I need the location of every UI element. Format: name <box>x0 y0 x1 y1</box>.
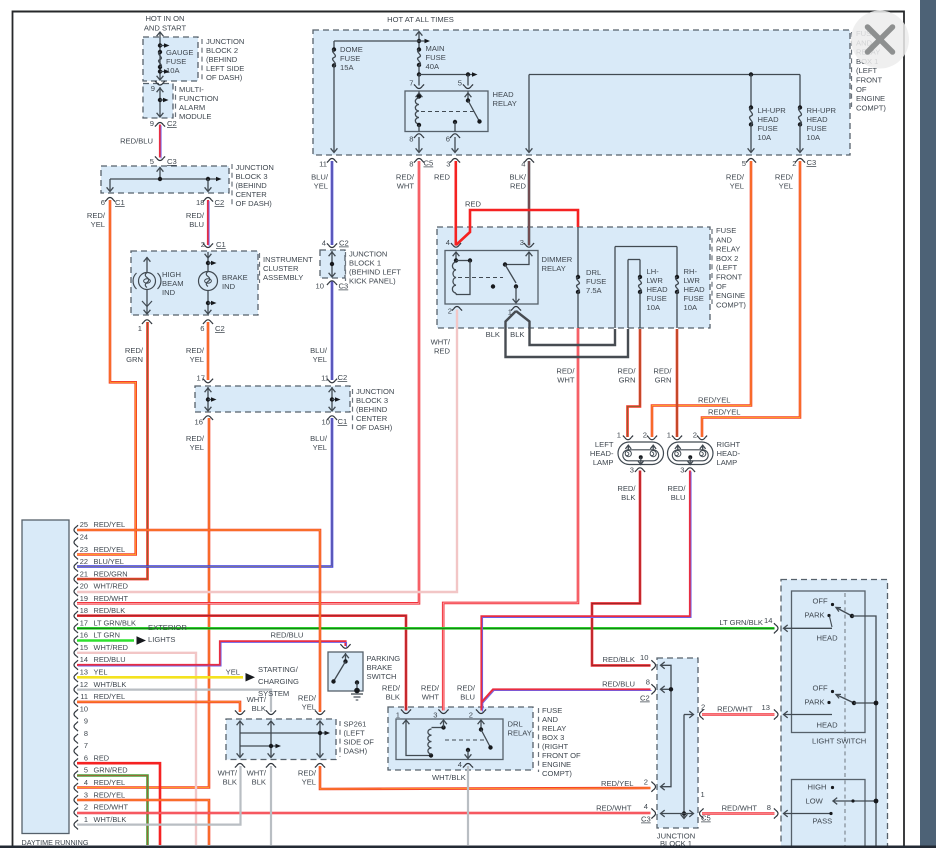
svg-text:1: 1 <box>508 308 512 317</box>
svg-text:KICK PANEL): KICK PANEL) <box>349 277 396 286</box>
svg-text:FUSE: FUSE <box>758 124 778 133</box>
svg-text:HEAD: HEAD <box>647 285 669 294</box>
svg-text:RED/: RED/ <box>298 769 317 778</box>
svg-text:RED: RED <box>510 182 527 191</box>
svg-text:RED/: RED/ <box>653 367 672 376</box>
svg-text:5: 5 <box>742 159 746 168</box>
svg-text:FUSE: FUSE <box>647 294 667 303</box>
svg-text:10: 10 <box>640 653 648 662</box>
svg-text:CENTER: CENTER <box>356 414 388 423</box>
svg-text:1: 1 <box>396 711 400 720</box>
svg-text:6: 6 <box>446 135 450 144</box>
svg-text:LOW: LOW <box>806 797 824 806</box>
svg-text:C2: C2 <box>167 119 177 128</box>
svg-text:WHT/RED: WHT/RED <box>94 582 129 591</box>
svg-text:9: 9 <box>151 84 155 93</box>
svg-text:RED/YEL: RED/YEL <box>94 790 126 799</box>
svg-text:RED/: RED/ <box>298 694 317 703</box>
svg-text:C1: C1 <box>216 240 226 249</box>
svg-text:(BEHIND LEFT: (BEHIND LEFT <box>349 268 401 277</box>
svg-text:YEL: YEL <box>190 355 204 364</box>
svg-text:YEL: YEL <box>94 668 108 677</box>
svg-text:FUSE: FUSE <box>340 54 360 63</box>
svg-text:RED/: RED/ <box>186 346 205 355</box>
svg-text:19: 19 <box>80 594 88 603</box>
svg-text:FUNCTION: FUNCTION <box>179 94 218 103</box>
svg-text:BLOCK 2: BLOCK 2 <box>206 46 238 55</box>
svg-text:2: 2 <box>448 307 452 316</box>
svg-text:IND: IND <box>222 282 236 291</box>
svg-text:INSTRUMENT: INSTRUMENT <box>263 255 313 264</box>
svg-text:C2: C2 <box>215 324 225 333</box>
svg-text:BLOCK 3: BLOCK 3 <box>236 172 268 181</box>
svg-text:5: 5 <box>84 766 88 775</box>
svg-text:LH-UPR: LH-UPR <box>758 106 787 115</box>
svg-text:HEAD: HEAD <box>493 90 515 99</box>
svg-text:COMPT): COMPT) <box>542 769 572 778</box>
svg-text:LAMP: LAMP <box>717 458 738 467</box>
svg-text:RELAY: RELAY <box>542 264 566 273</box>
svg-text:2: 2 <box>701 703 705 712</box>
svg-text:2: 2 <box>469 711 473 720</box>
svg-text:EXTERIOR: EXTERIOR <box>148 623 187 632</box>
svg-text:LT GRN: LT GRN <box>94 631 120 640</box>
svg-text:HOT IN ON: HOT IN ON <box>145 14 184 23</box>
svg-text:OF DASH): OF DASH) <box>206 73 243 82</box>
svg-text:6: 6 <box>101 198 105 207</box>
svg-text:ALARM: ALARM <box>179 103 205 112</box>
svg-text:ENGINE: ENGINE <box>542 760 571 769</box>
svg-text:12: 12 <box>80 680 88 689</box>
svg-text:BLU/: BLU/ <box>310 346 328 355</box>
svg-text:RED/BLU: RED/BLU <box>120 137 153 146</box>
svg-text:RED/BLU: RED/BLU <box>271 631 304 640</box>
svg-text:RH-UPR: RH-UPR <box>807 106 837 115</box>
svg-text:8: 8 <box>767 803 771 812</box>
svg-text:RED/WHT: RED/WHT <box>717 705 753 714</box>
svg-text:7: 7 <box>84 741 88 750</box>
svg-text:YEL: YEL <box>190 443 204 452</box>
svg-text:PARK: PARK <box>805 698 825 707</box>
svg-text:WHT/BLK: WHT/BLK <box>94 815 127 824</box>
svg-text:GRN: GRN <box>655 376 672 385</box>
svg-text:C2: C2 <box>640 694 650 703</box>
svg-text:3: 3 <box>520 238 524 247</box>
svg-text:RED/YEL: RED/YEL <box>94 545 126 554</box>
svg-text:LEFT SIDE: LEFT SIDE <box>206 64 244 73</box>
svg-text:16: 16 <box>80 631 88 640</box>
svg-text:10A: 10A <box>807 133 821 142</box>
svg-text:8: 8 <box>409 160 413 169</box>
svg-text:YEL: YEL <box>314 182 328 191</box>
svg-text:FUSE: FUSE <box>542 706 562 715</box>
svg-text:25: 25 <box>80 520 88 529</box>
svg-text:14: 14 <box>80 655 88 664</box>
svg-text:C2: C2 <box>339 239 349 248</box>
svg-text:10A: 10A <box>166 66 180 75</box>
svg-text:YEL: YEL <box>91 220 105 229</box>
svg-text:FUSE: FUSE <box>426 53 446 62</box>
svg-text:AND: AND <box>542 715 559 724</box>
svg-text:YEL: YEL <box>302 778 316 787</box>
svg-text:LH-: LH- <box>647 267 660 276</box>
svg-text:RED/: RED/ <box>617 484 636 493</box>
svg-text:JUNCTION: JUNCTION <box>356 387 394 396</box>
svg-text:OFF: OFF <box>813 597 829 606</box>
svg-text:HEAD: HEAD <box>817 634 839 643</box>
svg-text:HEAD: HEAD <box>807 115 829 124</box>
svg-text:10: 10 <box>316 282 324 291</box>
svg-text:4: 4 <box>446 238 450 247</box>
svg-text:DRL: DRL <box>586 268 601 277</box>
svg-text:LWR: LWR <box>647 276 664 285</box>
svg-text:WHT/: WHT/ <box>247 695 267 704</box>
svg-text:C5: C5 <box>701 814 711 823</box>
svg-text:SWITCH: SWITCH <box>367 672 397 681</box>
svg-text:HOT AT ALL TIMES: HOT AT ALL TIMES <box>387 15 454 24</box>
svg-text:RED/: RED/ <box>556 367 575 376</box>
svg-text:1: 1 <box>617 431 621 440</box>
svg-text:8: 8 <box>84 729 88 738</box>
svg-text:10: 10 <box>80 704 88 713</box>
svg-text:AND START: AND START <box>144 24 187 33</box>
svg-text:RED/YEL: RED/YEL <box>94 520 126 529</box>
svg-text:WHT: WHT <box>557 376 575 385</box>
svg-text:RED/: RED/ <box>457 684 476 693</box>
svg-text:20: 20 <box>80 582 88 591</box>
svg-text:MULTI-: MULTI- <box>179 85 204 94</box>
svg-text:RELAY: RELAY <box>716 245 740 254</box>
svg-text:GAUGE: GAUGE <box>166 48 193 57</box>
svg-text:RED/WHT: RED/WHT <box>94 594 129 603</box>
svg-text:HIGH: HIGH <box>808 783 827 792</box>
svg-text:GRN: GRN <box>619 376 636 385</box>
svg-text:3: 3 <box>446 160 450 169</box>
svg-text:JUNCTION: JUNCTION <box>206 37 244 46</box>
svg-text:3: 3 <box>433 711 437 720</box>
svg-text:14: 14 <box>764 616 772 625</box>
svg-text:4: 4 <box>84 778 88 787</box>
svg-text:9: 9 <box>84 717 88 726</box>
svg-text:BLU/YEL: BLU/YEL <box>94 557 124 566</box>
svg-text:HEAD: HEAD <box>817 721 839 730</box>
svg-text:FUSE: FUSE <box>586 277 606 286</box>
svg-text:C5: C5 <box>424 159 434 168</box>
svg-text:(LEFT: (LEFT <box>344 729 365 738</box>
svg-text:RED/: RED/ <box>186 211 205 220</box>
svg-text:11: 11 <box>80 692 88 701</box>
svg-text:MAIN: MAIN <box>426 44 445 53</box>
svg-text:FRONT OF: FRONT OF <box>542 751 581 760</box>
svg-text:C3: C3 <box>807 158 817 167</box>
svg-text:RED/BLK: RED/BLK <box>603 655 636 664</box>
svg-text:(BEHIND: (BEHIND <box>236 181 268 190</box>
svg-text:BLU/: BLU/ <box>311 173 329 182</box>
svg-text:DIMMER: DIMMER <box>542 255 573 264</box>
svg-text:WHT: WHT <box>422 693 440 702</box>
svg-text:10A: 10A <box>758 133 772 142</box>
svg-text:FRONT: FRONT <box>716 273 743 282</box>
svg-text:OF DASH): OF DASH) <box>356 423 393 432</box>
svg-text:10A: 10A <box>684 303 698 312</box>
svg-text:15A: 15A <box>340 63 354 72</box>
svg-text:WHT/: WHT/ <box>431 338 451 347</box>
svg-text:HEAD-: HEAD- <box>590 449 614 458</box>
svg-text:C2: C2 <box>338 373 348 382</box>
svg-text:OF: OF <box>716 282 727 291</box>
svg-text:RED/: RED/ <box>186 434 205 443</box>
svg-text:BLK: BLK <box>621 493 635 502</box>
svg-text:DOME: DOME <box>340 45 363 54</box>
svg-text:11: 11 <box>319 160 327 169</box>
svg-text:SIDE OF: SIDE OF <box>344 738 375 747</box>
svg-text:FUSE: FUSE <box>684 294 704 303</box>
svg-text:RED: RED <box>434 173 451 182</box>
svg-text:C1: C1 <box>115 198 125 207</box>
svg-text:3: 3 <box>630 466 634 475</box>
svg-text:C1: C1 <box>338 417 348 426</box>
svg-text:BLU: BLU <box>189 220 204 229</box>
svg-text:BLU/: BLU/ <box>310 434 328 443</box>
svg-text:HEAD-: HEAD- <box>717 449 741 458</box>
svg-text:(BEHIND: (BEHIND <box>206 55 238 64</box>
svg-text:BLK: BLK <box>510 330 524 339</box>
svg-text:23: 23 <box>80 545 88 554</box>
svg-text:7: 7 <box>409 79 413 88</box>
svg-text:4: 4 <box>458 760 462 769</box>
svg-text:YEL: YEL <box>779 182 793 191</box>
svg-text:8: 8 <box>409 135 413 144</box>
svg-text:FRONT: FRONT <box>856 76 883 85</box>
svg-text:8: 8 <box>646 678 650 687</box>
svg-text:RED/YEL: RED/YEL <box>601 779 634 788</box>
svg-text:1: 1 <box>138 324 142 333</box>
svg-text:WHT/: WHT/ <box>218 769 238 778</box>
svg-text:1: 1 <box>84 815 88 824</box>
svg-text:WHT/: WHT/ <box>247 769 267 778</box>
svg-text:YEL: YEL <box>313 443 327 452</box>
svg-text:5: 5 <box>150 157 154 166</box>
svg-text:DRL: DRL <box>508 720 523 729</box>
svg-text:2: 2 <box>84 803 88 812</box>
svg-text:WHT/BLK: WHT/BLK <box>432 773 466 782</box>
svg-text:BLK: BLK <box>486 330 500 339</box>
svg-text:IND: IND <box>162 288 176 297</box>
svg-text:C3: C3 <box>167 157 177 166</box>
svg-text:10: 10 <box>322 418 330 427</box>
svg-text:RED/: RED/ <box>382 684 401 693</box>
svg-text:HIGH: HIGH <box>162 270 181 279</box>
svg-text:RED: RED <box>94 753 110 762</box>
svg-text:4: 4 <box>644 802 648 811</box>
svg-text:2: 2 <box>792 159 796 168</box>
svg-text:RED/BLK: RED/BLK <box>94 606 126 615</box>
svg-text:BEAM: BEAM <box>162 279 184 288</box>
svg-text:PARK: PARK <box>805 611 825 620</box>
svg-text:2: 2 <box>693 431 697 440</box>
svg-text:RED/BLU: RED/BLU <box>94 655 126 664</box>
svg-text:21: 21 <box>80 569 88 578</box>
svg-text:RELAY: RELAY <box>542 724 566 733</box>
svg-text:LAMP: LAMP <box>593 458 614 467</box>
svg-text:6: 6 <box>200 324 204 333</box>
svg-text:18: 18 <box>196 198 204 207</box>
svg-text:BLK/: BLK/ <box>510 173 527 182</box>
svg-text:YEL: YEL <box>226 668 240 677</box>
svg-text:OF: OF <box>856 85 867 94</box>
svg-text:FUSE: FUSE <box>166 57 186 66</box>
svg-text:BLK: BLK <box>252 704 266 713</box>
svg-text:HEAD: HEAD <box>758 115 780 124</box>
svg-text:(BEHIND: (BEHIND <box>356 405 388 414</box>
svg-text:WHT/BLK: WHT/BLK <box>94 680 127 689</box>
svg-text:LWR: LWR <box>684 276 701 285</box>
svg-text:RED/: RED/ <box>617 367 636 376</box>
svg-text:AND: AND <box>716 235 733 244</box>
svg-text:RED/: RED/ <box>125 346 144 355</box>
svg-text:LIGHTS: LIGHTS <box>148 635 175 644</box>
svg-text:17: 17 <box>80 618 88 627</box>
svg-text:BLU: BLU <box>460 693 475 702</box>
svg-text:COMPT): COMPT) <box>716 300 746 309</box>
svg-text:RED/WHT: RED/WHT <box>596 804 632 813</box>
svg-text:RED/YEL: RED/YEL <box>94 692 126 701</box>
svg-text:RED: RED <box>434 347 451 356</box>
svg-text:CLUSTER: CLUSTER <box>263 264 299 273</box>
svg-text:LT GRN/BLK: LT GRN/BLK <box>719 618 763 627</box>
svg-text:3: 3 <box>84 790 88 799</box>
svg-text:RED/WHT: RED/WHT <box>94 803 129 812</box>
svg-text:RED/YEL: RED/YEL <box>708 408 741 417</box>
svg-text:BLOCK 1: BLOCK 1 <box>349 259 381 268</box>
svg-text:BRAKE: BRAKE <box>367 663 393 672</box>
svg-text:5: 5 <box>458 79 462 88</box>
svg-text:RED/YEL: RED/YEL <box>94 778 126 787</box>
svg-text:2: 2 <box>201 240 205 249</box>
svg-text:ENGINE: ENGINE <box>716 291 745 300</box>
svg-text:BLK: BLK <box>252 778 266 787</box>
svg-text:RH-: RH- <box>684 267 698 276</box>
svg-text:2: 2 <box>643 431 647 440</box>
svg-text:YEL: YEL <box>730 182 744 191</box>
svg-text:4: 4 <box>521 160 525 169</box>
svg-text:FUSE: FUSE <box>807 124 827 133</box>
svg-text:CENTER: CENTER <box>236 190 268 199</box>
svg-text:10A: 10A <box>647 303 661 312</box>
svg-text:6: 6 <box>84 753 88 762</box>
svg-text:16: 16 <box>195 418 203 427</box>
svg-text:(LEFT: (LEFT <box>716 263 737 272</box>
svg-text:OFF: OFF <box>813 684 829 693</box>
svg-text:RIGHT: RIGHT <box>717 440 741 449</box>
svg-text:WHT/RED: WHT/RED <box>94 643 129 652</box>
svg-text:RED/: RED/ <box>421 684 440 693</box>
svg-text:2: 2 <box>644 778 648 787</box>
svg-text:WHT: WHT <box>397 182 415 191</box>
svg-text:18: 18 <box>80 606 88 615</box>
svg-text:HEAD: HEAD <box>684 285 706 294</box>
svg-text:RELAY: RELAY <box>508 729 532 738</box>
svg-text:LEFT: LEFT <box>595 440 614 449</box>
svg-text:4: 4 <box>322 239 326 248</box>
svg-text:RELAY: RELAY <box>493 99 517 108</box>
svg-text:RED/: RED/ <box>87 211 106 220</box>
svg-text:BRAKE: BRAKE <box>222 273 248 282</box>
svg-text:ASSEMBLY: ASSEMBLY <box>263 273 303 282</box>
svg-text:13: 13 <box>762 703 770 712</box>
svg-text:BLU: BLU <box>671 493 686 502</box>
svg-text:LT GRN/BLK: LT GRN/BLK <box>94 618 137 627</box>
svg-text:YEL: YEL <box>313 355 327 364</box>
svg-text:C3: C3 <box>339 282 349 291</box>
svg-text:PASS: PASS <box>813 817 833 826</box>
svg-text:22: 22 <box>80 557 88 566</box>
svg-text:RED/: RED/ <box>667 484 686 493</box>
svg-text:3: 3 <box>680 466 684 475</box>
svg-text:BOX 3: BOX 3 <box>542 733 564 742</box>
svg-text:BOX 2: BOX 2 <box>716 254 738 263</box>
svg-text:RED/: RED/ <box>775 173 794 182</box>
svg-text:RED/YEL: RED/YEL <box>698 396 731 405</box>
svg-text:7.5A: 7.5A <box>586 286 603 295</box>
svg-text:9: 9 <box>150 119 154 128</box>
svg-text:OF DASH): OF DASH) <box>236 199 273 208</box>
svg-text:STARTING/: STARTING/ <box>258 665 299 674</box>
svg-text:40A: 40A <box>426 62 440 71</box>
svg-text:RED/WHT: RED/WHT <box>722 804 758 813</box>
svg-text:PARKING: PARKING <box>367 654 401 663</box>
svg-text:BLK: BLK <box>386 693 400 702</box>
svg-text:DASH): DASH) <box>344 747 368 756</box>
svg-text:RED/GRN: RED/GRN <box>94 569 128 578</box>
svg-text:YEL: YEL <box>302 703 316 712</box>
svg-text:CHARGING: CHARGING <box>258 677 299 686</box>
svg-text:11: 11 <box>321 374 329 383</box>
svg-text:13: 13 <box>80 668 88 677</box>
svg-text:JUNCTION: JUNCTION <box>236 163 274 172</box>
svg-text:1: 1 <box>667 431 671 440</box>
svg-text:24: 24 <box>80 532 88 541</box>
svg-text:GRN: GRN <box>126 355 143 364</box>
svg-text:C2: C2 <box>215 198 225 207</box>
svg-text:BLK: BLK <box>223 778 237 787</box>
svg-text:(RIGHT: (RIGHT <box>542 742 569 751</box>
svg-text:COMPT): COMPT) <box>856 103 886 112</box>
svg-text:17: 17 <box>197 374 205 383</box>
svg-text:RED/BLU: RED/BLU <box>602 680 635 689</box>
svg-text:1: 1 <box>701 790 705 799</box>
svg-text:MODULE: MODULE <box>179 112 212 121</box>
svg-text:ENGINE: ENGINE <box>856 94 885 103</box>
svg-text:15: 15 <box>80 643 88 652</box>
svg-text:SP261: SP261 <box>344 720 367 729</box>
svg-text:GRN/RED: GRN/RED <box>94 766 128 775</box>
svg-text:JUNCTION: JUNCTION <box>349 250 387 259</box>
svg-text:BLOCK 3: BLOCK 3 <box>356 396 388 405</box>
svg-text:RED: RED <box>465 200 482 209</box>
svg-text:RED/: RED/ <box>396 173 415 182</box>
svg-text:C3: C3 <box>641 815 651 824</box>
svg-text:FUSE: FUSE <box>716 226 736 235</box>
svg-text:RED/: RED/ <box>726 173 745 182</box>
svg-text:LIGHT SWITCH: LIGHT SWITCH <box>812 737 866 746</box>
